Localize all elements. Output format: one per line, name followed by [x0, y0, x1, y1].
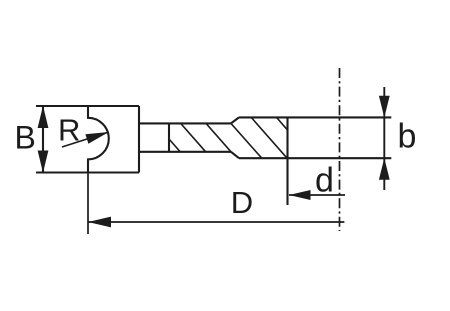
chamfer transition edges — [231, 117, 239, 158]
hatch section lines — [169, 117, 288, 158]
svg-text:d: d — [315, 162, 334, 200]
cutter head body (left block outline) — [36, 106, 139, 173]
extension line below cutting edge (for D) — [87, 173, 89, 235]
hatch start vertical line — [168, 123, 170, 151]
svg-text:R: R — [58, 113, 80, 148]
centerline (dash-dot) — [339, 68, 341, 231]
neck / shank band edges — [139, 123, 231, 151]
D dimension line — [88, 221, 344, 223]
R leader line — [62, 132, 109, 147]
hatch end vertical line + extension for d — [286, 117, 288, 205]
svg-text:B: B — [15, 120, 36, 156]
svg-text:D: D — [231, 185, 253, 220]
B dimension line (block left edge) — [42, 106, 44, 173]
d dimension line — [289, 194, 345, 196]
svg-text:b: b — [398, 118, 417, 156]
shaft body top and bottom edges (with extension past right face) — [239, 117, 391, 158]
right end face of shaft / b dimension line — [383, 87, 385, 190]
concave radius cutting profile (notch line with semicircle) — [88, 106, 109, 173]
D dimension arrowhead — [88, 217, 111, 228]
d dimension arrowhead — [289, 190, 311, 200]
b dimension arrowheads — [379, 96, 390, 118]
B dimension arrowheads — [38, 106, 49, 128]
R leader arrowhead — [85, 132, 108, 144]
